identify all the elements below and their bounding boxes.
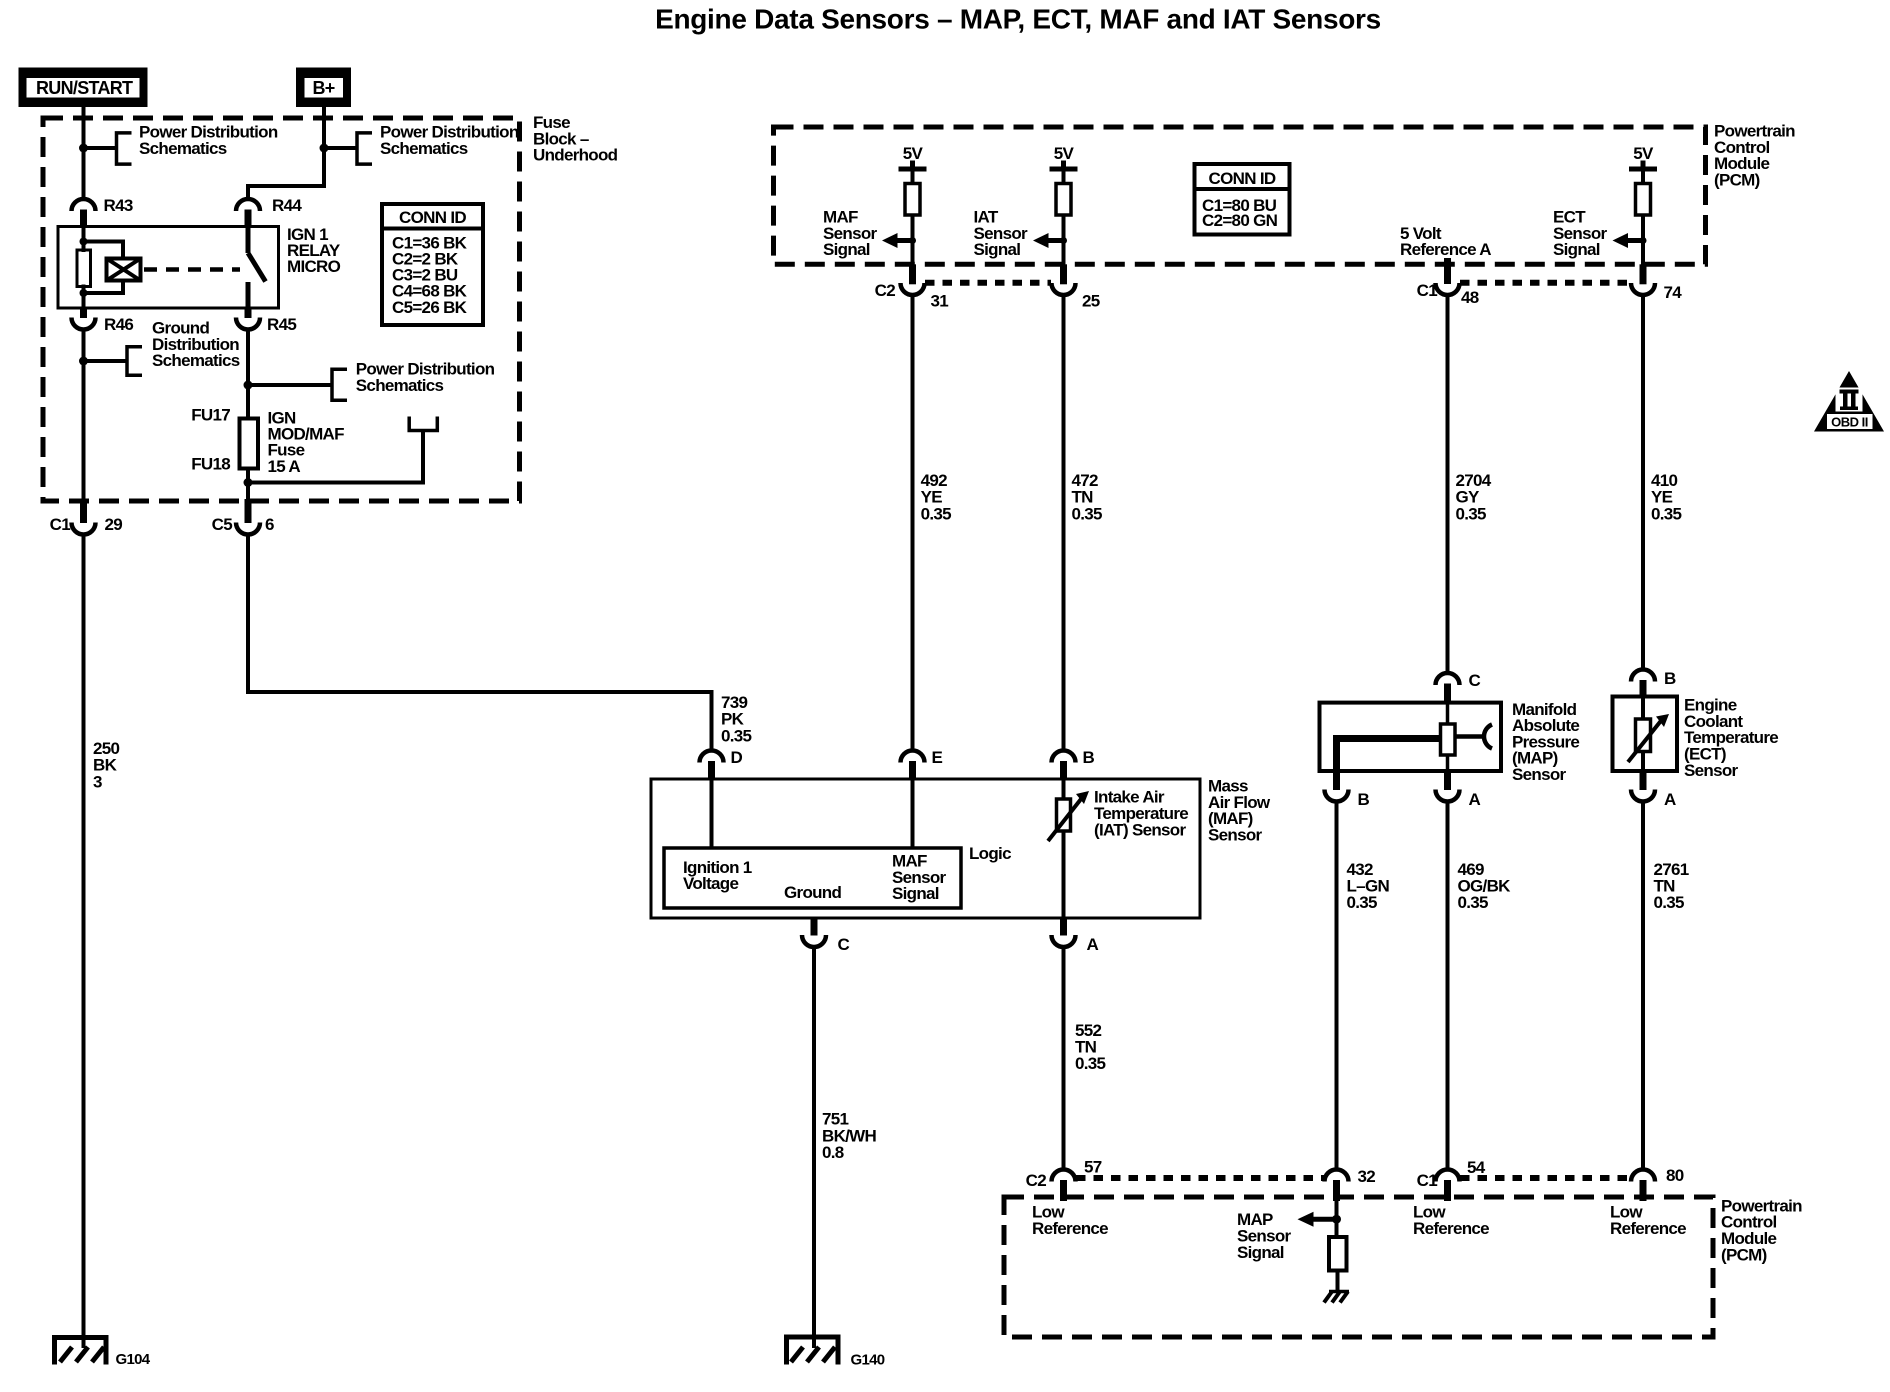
fuse block underhood dashed box — [43, 118, 520, 501]
wire 32 into PCM — [1335, 1200, 1339, 1239]
5V supply symbol (IAT) — [1050, 144, 1078, 185]
svg-text:31: 31 — [931, 292, 949, 311]
wire RUN/START down to R43 — [82, 106, 86, 199]
svg-text:57: 57 — [1084, 1158, 1102, 1177]
svg-text:5V: 5V — [1054, 144, 1075, 163]
wire PCM 74 to ECT B (410 YE) — [1641, 294, 1645, 669]
connector C2 31 — [875, 264, 949, 310]
connector R45 — [236, 308, 296, 334]
svg-text:29: 29 — [105, 515, 123, 534]
svg-text:25: 25 — [1082, 292, 1100, 311]
fuse FU17/FU18 IGN MOD/MAF 15A — [191, 406, 344, 476]
OBD II symbol — [1814, 371, 1884, 432]
wire to up-bracket — [248, 431, 423, 483]
svg-text:Engine Data Sensors – MAP, ECT: Engine Data Sensors – MAP, ECT, MAF and … — [655, 4, 1381, 35]
connector R46 — [72, 308, 134, 334]
connector A (MAP) — [1436, 771, 1481, 809]
relay coil resistor — [77, 250, 91, 287]
CONN ID table (PCM) — [1195, 164, 1290, 235]
off-page reference bracket (Power Distribution Schematics, left) — [117, 123, 278, 165]
wire C5 6 to MAF pin D — [248, 533, 712, 751]
wire MAP A to PCM 54 (469 OG/BK) — [1446, 800, 1450, 1170]
svg-text:C: C — [1469, 671, 1481, 690]
ECT thermistor — [1628, 697, 1669, 772]
wire B+ elbow to R44 — [248, 186, 324, 199]
arrow ECT Sensor Signal — [1553, 208, 1643, 260]
svg-text:RUN/START: RUN/START — [36, 78, 133, 98]
svg-text:C2: C2 — [1026, 1171, 1047, 1190]
wire to bracket — [84, 359, 128, 363]
wire B+ down — [322, 106, 326, 188]
off-page reference bracket (Ground Distribution Schematics) — [127, 319, 240, 376]
svg-text:E: E — [932, 748, 943, 767]
wire C to G140 (751 BK/WH) — [812, 946, 816, 1349]
resistor (MAF pull-up) — [905, 184, 920, 216]
MAP internal wire and element — [1337, 703, 1493, 771]
wire PCM 31 to MAF E (492 YE) — [911, 294, 915, 751]
wire 250 BK down to G104 — [82, 533, 86, 1348]
connector 74 — [1631, 264, 1682, 302]
svg-text:74: 74 — [1664, 283, 1683, 302]
svg-text:A: A — [1087, 935, 1099, 954]
svg-text:C1=80 BUC2=80 GN: C1=80 BUC2=80 GN — [1202, 196, 1278, 230]
svg-text:54: 54 — [1467, 1158, 1486, 1177]
connector C (MAP) — [1436, 671, 1481, 704]
wire below fuse — [246, 469, 250, 502]
relay switch — [248, 227, 266, 309]
wire to off-page bracket — [324, 146, 357, 150]
junction dot — [80, 289, 88, 297]
ground G104 — [52, 1335, 151, 1368]
chassis ground (PCM internal) — [1324, 1292, 1349, 1303]
svg-text:48: 48 — [1461, 288, 1479, 307]
dotted harness line C1 48-74 — [1460, 280, 1630, 286]
svg-text:A: A — [1469, 790, 1481, 809]
wire below coil — [82, 285, 86, 309]
junction dot — [79, 357, 88, 366]
svg-text:OBD II: OBD II — [1831, 415, 1868, 430]
connector R43 — [72, 196, 133, 227]
wire A to PCM 57 (552 TN) — [1062, 946, 1066, 1171]
wire PCM 25 to MAF B (472 TN) — [1062, 294, 1066, 751]
wire PCM 48 to MAP C (2704 GY) — [1446, 294, 1450, 673]
wire ECT A to PCM 80 (2761 TN) — [1641, 800, 1645, 1170]
svg-text:FU18: FU18 — [191, 455, 230, 474]
svg-text:CONN ID: CONN ID — [1209, 169, 1276, 188]
svg-text:A: A — [1664, 790, 1676, 809]
branch to coil symbol — [84, 242, 124, 259]
power source box B+ — [296, 68, 351, 108]
MAP sensor box — [1320, 703, 1502, 771]
wire to off-page bracket — [84, 146, 117, 150]
connector B (ECT) — [1631, 669, 1676, 698]
svg-text:G104: G104 — [116, 1351, 151, 1368]
svg-text:C: C — [838, 935, 850, 954]
svg-text:D: D — [731, 748, 743, 767]
connector R44 — [236, 196, 302, 227]
CONN ID table (fuse block) — [382, 204, 483, 325]
relay coil X symbol — [107, 259, 141, 281]
wire MAP B to PCM 32 (432 L-GN) — [1335, 800, 1339, 1170]
dotted harness line C2 31-25 — [925, 280, 1051, 286]
off-page reference bracket (Power Distribution Schematics, B+) — [357, 123, 519, 165]
relay coil wire — [82, 227, 86, 253]
wire D to logic — [710, 779, 714, 848]
junction dot — [80, 238, 88, 246]
dashed actuating link — [144, 267, 240, 272]
junction dot — [320, 144, 329, 153]
connector C1 48 — [1417, 258, 1479, 307]
svg-text:Ground: Ground — [784, 883, 841, 902]
svg-text:FU17: FU17 — [191, 406, 230, 425]
connector 80 — [1631, 1166, 1684, 1201]
connector A (MAF IAT low) — [1052, 918, 1099, 954]
IAT thermistor — [1048, 779, 1089, 918]
connector D — [700, 748, 743, 779]
arrow MAF Sensor Signal — [823, 208, 913, 260]
connector A (ECT) — [1631, 771, 1676, 809]
wire resistor to connector 31 — [911, 215, 915, 266]
svg-text:C2: C2 — [875, 281, 896, 300]
svg-text:5V: 5V — [903, 144, 924, 163]
junction dot — [244, 381, 253, 390]
wire to bracket — [248, 383, 332, 387]
connector 25 — [1052, 264, 1100, 310]
svg-text:B: B — [1664, 669, 1676, 688]
svg-text:R44: R44 — [272, 196, 302, 215]
relay IGN 1 RELAY MICRO box — [58, 227, 279, 309]
connector C (MAF ground) — [802, 918, 850, 954]
dotted harness line 57-32 — [1076, 1175, 1324, 1181]
ground G140 — [784, 1335, 885, 1369]
off-page reference bracket (Power Distribution Schematics, right) — [332, 360, 495, 401]
junction dot — [79, 144, 88, 153]
arrow IAT Sensor Signal — [974, 208, 1064, 260]
svg-text:Logic: Logic — [969, 844, 1011, 863]
connector 32 — [1325, 1167, 1376, 1201]
svg-text:C1=36 BKC2=2 BKC3=2 BUC4=68 BK: C1=36 BKC2=2 BKC3=2 BUC4=68 BKC5=26 BK — [392, 234, 468, 318]
connector C1 29 — [50, 499, 123, 535]
svg-text:C1: C1 — [1417, 281, 1438, 300]
connector B (MAP) — [1325, 771, 1370, 809]
svg-text:6: 6 — [265, 515, 274, 534]
svg-text:C1: C1 — [1417, 1171, 1438, 1190]
connector B (MAF) — [1052, 748, 1095, 779]
MAF sensor box — [651, 779, 1200, 918]
logic box — [664, 848, 961, 908]
resistor (ECT pull-up) — [1636, 184, 1651, 216]
wire R46 down to C1 29 — [82, 328, 86, 523]
svg-text:32: 32 — [1358, 1167, 1376, 1186]
junction dot — [1332, 1215, 1341, 1224]
svg-text:5V: 5V — [1633, 144, 1654, 163]
connector C2 57 — [1026, 1158, 1102, 1201]
svg-text:C1: C1 — [50, 515, 71, 534]
svg-text:R43: R43 — [104, 196, 133, 215]
svg-text:80: 80 — [1666, 1166, 1684, 1185]
svg-text:CONN ID: CONN ID — [399, 208, 466, 227]
junction dot — [244, 478, 253, 487]
5V supply symbol (ECT) — [1629, 144, 1657, 185]
dotted harness line 54-80 — [1460, 1175, 1630, 1181]
connector E — [901, 748, 943, 779]
wire E to logic — [911, 779, 915, 848]
resistor (PCM internal) — [1329, 1237, 1347, 1271]
svg-text:B: B — [1358, 790, 1370, 809]
svg-text:B: B — [1083, 748, 1095, 767]
svg-text:G140: G140 — [851, 1352, 885, 1369]
arrow MAP Sensor Signal — [1237, 1210, 1337, 1262]
ECT sensor box — [1613, 697, 1678, 772]
svg-text:B+: B+ — [312, 78, 334, 98]
power source box RUN/START — [19, 68, 148, 108]
resistor (IAT pull-up) — [1056, 184, 1071, 216]
wire to internal ground — [1336, 1271, 1340, 1294]
svg-text:C5: C5 — [212, 515, 233, 534]
off-page up bracket — [409, 417, 437, 431]
connector C1 54 — [1417, 1158, 1486, 1201]
wire resistor to connector 74 — [1641, 215, 1645, 266]
PCM bottom dashed box — [1004, 1197, 1713, 1337]
wire R45 down to fuse — [246, 328, 250, 419]
PCM top dashed box — [774, 127, 1706, 264]
5V supply symbol (MAF) — [899, 144, 927, 185]
connector C5 6 — [212, 499, 274, 535]
wire resistor to connector 25 — [1062, 215, 1066, 266]
svg-text:R45: R45 — [267, 315, 296, 334]
svg-text:R46: R46 — [104, 315, 133, 334]
